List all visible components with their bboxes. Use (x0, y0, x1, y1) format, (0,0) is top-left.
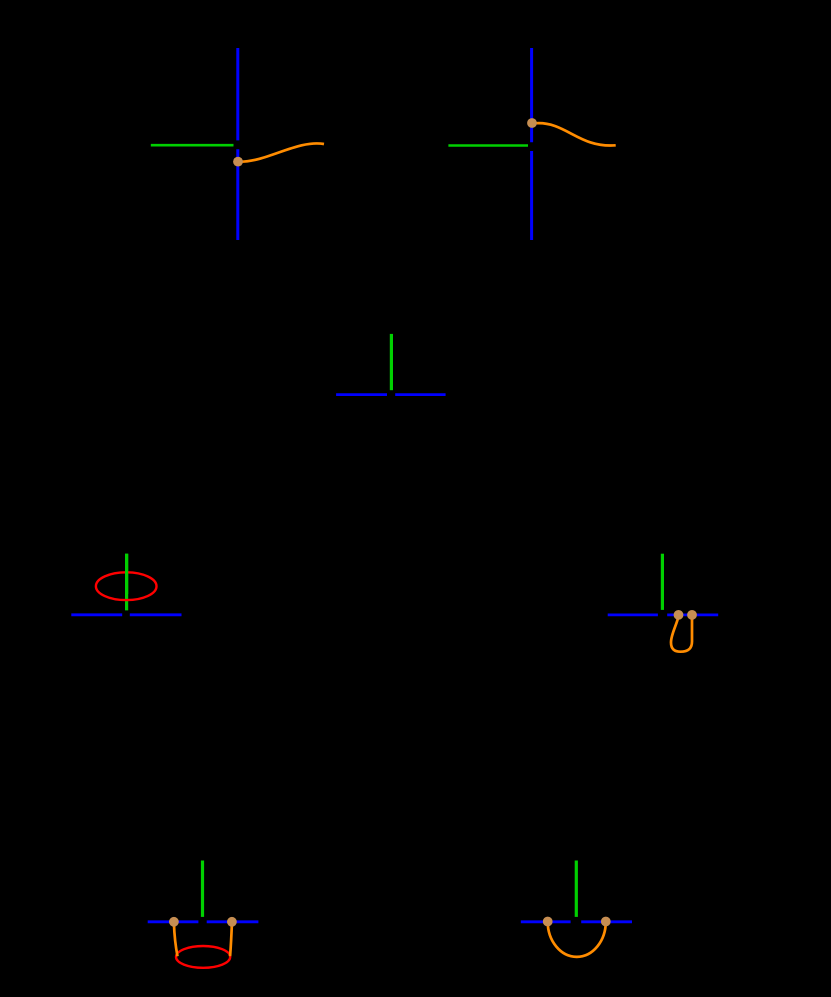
figure G: bottom-right tee with orange semicircle (521, 861, 632, 957)
blue dashed baseline left dash (608, 614, 658, 617)
green horizontal strand (448, 144, 528, 147)
red hanging ellipse (176, 946, 230, 968)
figure B: top-right crossing (448, 48, 615, 240)
figure A: top-left crossing (151, 48, 324, 240)
figure E: mid-right tee with orange finger loop (608, 554, 719, 652)
figure D: mid-left tee with red loop (71, 554, 181, 615)
blue dashed baseline right dash (207, 920, 259, 923)
blue dashed baseline left dash (148, 920, 199, 923)
tan endpoint dot (233, 157, 243, 167)
green vertical stick (201, 861, 204, 917)
orange right leg (230, 923, 232, 956)
orange semi-ellipse below baseline (548, 922, 606, 957)
blue vertical strand upper segment (530, 48, 533, 142)
blue dashed baseline right dash (130, 613, 182, 616)
orange left leg (174, 923, 178, 956)
tan dot left (169, 917, 179, 927)
blue vertical strand lower segment (530, 151, 533, 240)
figure F: bottom-left tee with red loop hung on orange legs (148, 861, 259, 968)
orange finger loop below baseline (671, 617, 692, 652)
tan dot left (543, 917, 553, 927)
blue dashed baseline right dash (395, 393, 445, 396)
green horizontal strand (151, 144, 234, 147)
red encircling ellipse (96, 572, 157, 600)
green vertical stick (125, 554, 128, 611)
blue dashed baseline left dash (521, 920, 571, 923)
blue vertical strand lower segment (236, 149, 239, 240)
blue dashed baseline left dash (71, 613, 122, 616)
green overdraw at upper crossing (125, 554, 128, 594)
blue dashed baseline left dash (336, 393, 387, 396)
tan dot left (674, 610, 684, 620)
blue dashed baseline right dash (667, 614, 718, 617)
tan dot right (601, 917, 611, 927)
tan dot right (687, 610, 697, 620)
tan dot right (227, 917, 237, 927)
blue vertical strand upper segment (236, 48, 239, 140)
green vertical stick (575, 861, 578, 917)
green vertical stick (661, 554, 664, 610)
figure C: center tee (336, 334, 446, 395)
tan endpoint dot (527, 118, 537, 128)
orange curve descending to the right (537, 123, 616, 145)
blue dashed baseline right dash (581, 920, 632, 923)
orange curve rising to the right (241, 143, 325, 161)
green vertical stick (390, 334, 393, 390)
